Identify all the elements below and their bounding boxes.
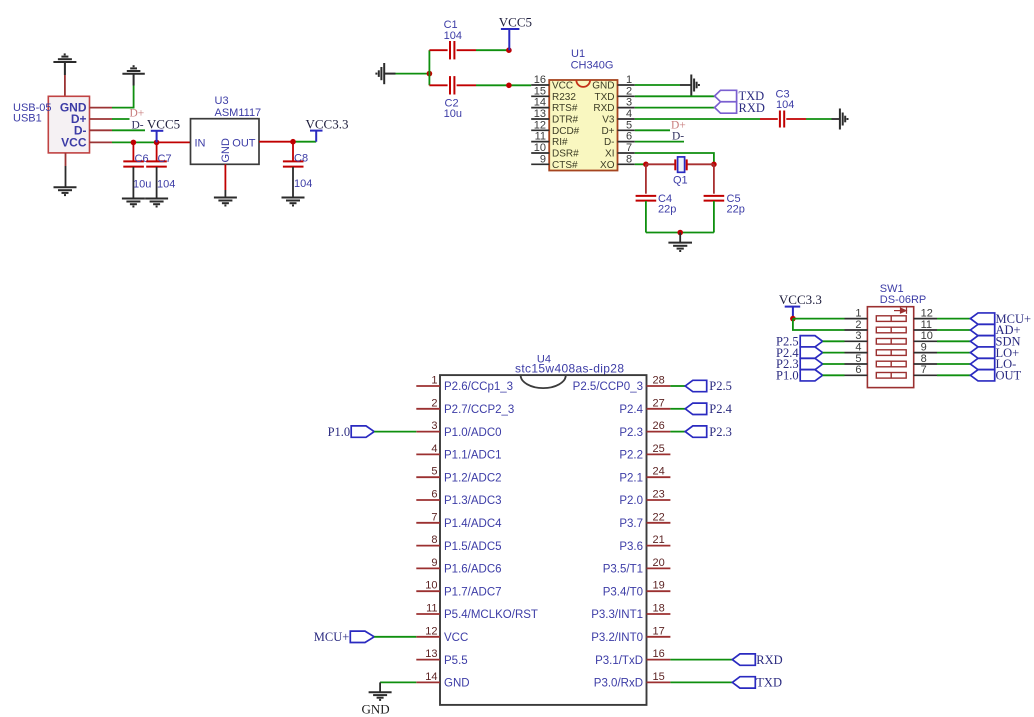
svg-text:P3.1/TxD: P3.1/TxD [595, 655, 643, 667]
svg-text:20: 20 [653, 557, 665, 569]
MCU U4 box [440, 375, 647, 705]
svg-text:11: 11 [535, 131, 546, 143]
port TXD (U4) [732, 677, 755, 688]
wire GND net [112, 86, 134, 108]
svg-text:GND: GND [362, 702, 390, 717]
svg-text:3: 3 [431, 420, 437, 432]
svg-text:V3: V3 [602, 115, 615, 126]
U1 left pin names [552, 81, 580, 171]
svg-text:26: 26 [653, 420, 665, 432]
ground under crystal [668, 243, 692, 251]
wire ground to C1/C2 net [396, 73, 430, 75]
ground at U1 pin1 (sideways) [691, 75, 699, 96]
svg-text:P2.2: P2.2 [619, 450, 643, 462]
ground under USB1 [54, 187, 77, 195]
svg-text:17: 17 [653, 625, 665, 637]
svg-text:RI#: RI# [552, 137, 568, 148]
svg-text:11: 11 [921, 319, 932, 331]
U1 right pin names [592, 81, 615, 171]
svg-text:D+: D+ [671, 119, 686, 131]
wire U1 pin4 V3 + capacitor C3 [635, 118, 760, 120]
svg-text:8: 8 [626, 153, 632, 165]
svg-text:18: 18 [653, 603, 665, 615]
USB1 pin stubs [90, 108, 113, 143]
wire vertical C1-C2 left [428, 50, 430, 85]
SW1 left pin numbers [855, 307, 861, 376]
svg-text:P2.4: P2.4 [709, 402, 732, 416]
switch SW1 box [867, 307, 913, 388]
junction node VCC3.3-SW1 [790, 316, 796, 322]
svg-text:CTS#: CTS# [552, 160, 578, 171]
port MCU+ [970, 313, 994, 324]
junction node xtal-gnd [677, 230, 683, 236]
wire SW1 pin1 [793, 318, 845, 320]
port TXD [715, 90, 737, 101]
svg-text:10: 10 [921, 330, 933, 342]
port LO- [970, 358, 994, 369]
SW1 arrow mark [894, 307, 907, 313]
svg-text:P2.7/CCP2_3: P2.7/CCP2_3 [444, 404, 514, 416]
U4 left pin names [444, 381, 538, 689]
ground GND-A1 above USB1 [53, 54, 76, 75]
svg-text:1: 1 [855, 307, 861, 319]
junction node pin16 [506, 83, 512, 89]
connector USB1 box [48, 96, 89, 153]
svg-text:14: 14 [534, 97, 546, 109]
svg-text:P2.3: P2.3 [619, 427, 643, 439]
SW1 right pin stubs [914, 319, 937, 376]
svg-text:VCC: VCC [552, 81, 573, 92]
U4 right pin stubs [647, 386, 671, 682]
U1 right pin stubs [618, 85, 635, 164]
IC U1 box [549, 80, 617, 171]
U4 left pin numbers [425, 375, 437, 683]
svg-text:1: 1 [431, 375, 437, 387]
wire U4 pin26 [670, 431, 685, 433]
ground under C8 [282, 198, 305, 206]
wire U4 pin16 RXD [670, 659, 732, 661]
wire SW1 pin5 [823, 374, 845, 376]
svg-text:OUT: OUT [996, 369, 1022, 383]
svg-text:VCC3.3: VCC3.3 [306, 117, 349, 132]
svg-text:12: 12 [921, 307, 933, 319]
wire U4 pin28 [670, 385, 685, 387]
port RXD [715, 102, 737, 113]
svg-text:RXD: RXD [739, 101, 765, 115]
port RXD (U4) [732, 654, 755, 665]
U3 GND pin wire [224, 164, 226, 190]
svg-text:P2.1: P2.1 [619, 472, 643, 484]
wire U1 pin1 GND [635, 84, 680, 86]
svg-text:Q1: Q1 [673, 175, 688, 187]
svg-text:P2.6/CCp1_3: P2.6/CCp1_3 [444, 381, 513, 393]
svg-text:104: 104 [776, 99, 794, 111]
svg-text:27: 27 [653, 397, 665, 409]
svg-text:25: 25 [653, 443, 665, 455]
svg-text:DTR#: DTR# [552, 115, 579, 126]
svg-text:5: 5 [431, 466, 437, 478]
wire MCU+ to pin12 [374, 636, 416, 638]
svg-text:VCC5: VCC5 [147, 116, 180, 131]
svg-text:5: 5 [626, 119, 632, 131]
wire U1 pin6 D- [635, 141, 684, 143]
svg-text:16: 16 [653, 648, 665, 660]
U4 notch [521, 375, 566, 388]
svg-text:P1.7/ADC7: P1.7/ADC7 [444, 586, 502, 598]
svg-text:P2.5/CCP0_3: P2.5/CCP0_3 [573, 381, 643, 393]
svg-text:DCD#: DCD# [552, 126, 580, 137]
svg-text:4: 4 [855, 341, 861, 353]
capacitor C4 [645, 164, 647, 193]
svg-text:10u: 10u [444, 108, 462, 120]
svg-text:16: 16 [534, 74, 546, 86]
svg-text:P2.3: P2.3 [709, 425, 732, 439]
ground left of C1/C2 (sideways) [376, 63, 395, 84]
USB1 pin names [60, 101, 87, 150]
svg-text:2: 2 [431, 397, 437, 409]
svg-text:9: 9 [431, 557, 437, 569]
svg-text:OUT: OUT [232, 137, 256, 149]
svg-text:10u: 10u [133, 179, 151, 191]
svg-text:21: 21 [653, 534, 665, 546]
svg-text:4: 4 [626, 108, 632, 120]
svg-text:3: 3 [855, 330, 861, 342]
wire USB1 GND pin to ground [64, 75, 66, 96]
junction node XO [643, 162, 649, 168]
svg-text:D-: D- [672, 131, 684, 143]
U1 left pin numbers [534, 74, 546, 165]
svg-text:P2.5: P2.5 [709, 379, 732, 393]
wire SW1 pin2 [823, 340, 845, 342]
junction node VCC5-a [131, 140, 137, 146]
svg-text:GND: GND [444, 678, 470, 690]
wire SW1 pin2 [793, 319, 845, 330]
svg-text:RTS#: RTS# [552, 103, 578, 114]
svg-text:P3.3/INT1: P3.3/INT1 [591, 609, 643, 621]
svg-text:IN: IN [195, 137, 206, 149]
port AD+ [970, 324, 994, 335]
svg-text:P1.0: P1.0 [328, 425, 351, 439]
svg-text:22p: 22p [658, 204, 676, 216]
ground at U4 pin14 [369, 692, 392, 700]
svg-text:R232: R232 [552, 92, 576, 103]
wire crystal bottom [646, 232, 714, 234]
svg-text:D-: D- [132, 119, 144, 131]
U4 right pin names [573, 381, 644, 689]
svg-text:TXD: TXD [756, 676, 782, 690]
svg-text:13: 13 [425, 648, 437, 660]
svg-text:RXD: RXD [756, 653, 782, 667]
wire GND pin14 [380, 681, 416, 683]
ground under C7 [145, 199, 168, 207]
svg-text:USB1: USB1 [13, 113, 42, 125]
port OUT [970, 370, 994, 381]
SW1 right pin numbers [921, 307, 933, 376]
wire U1 pin5 D+ [635, 129, 670, 131]
wire SW1 pin3 [823, 352, 845, 354]
svg-text:ASM1117: ASM1117 [215, 107, 262, 119]
wire USB1 shield pin down [65, 153, 67, 166]
svg-text:MCU+: MCU+ [314, 630, 350, 644]
port P1.0 (U4 pin3) [351, 426, 374, 437]
wire U4 pin15 TXD [670, 681, 732, 683]
svg-text:12: 12 [534, 119, 546, 131]
port MCU+ (U4 pin12) [350, 631, 374, 642]
svg-text:P3.0/RxD: P3.0/RxD [594, 678, 643, 690]
svg-text:8: 8 [921, 353, 927, 365]
junction node XI [711, 162, 717, 168]
port P2.3 (SW1) [800, 358, 822, 369]
junction node VCC5 top [506, 47, 512, 53]
svg-text:P3.6: P3.6 [619, 541, 643, 553]
svg-text:C6: C6 [135, 153, 149, 165]
svg-text:8: 8 [431, 534, 437, 546]
svg-text:VCC: VCC [444, 632, 468, 644]
junction node VCC3.3 [290, 139, 296, 145]
svg-text:11: 11 [426, 603, 437, 615]
svg-text:22: 22 [653, 511, 665, 523]
U1 notch [576, 80, 590, 87]
U1 right pin numbers [626, 74, 632, 165]
svg-text:P1.0: P1.0 [776, 369, 799, 383]
svg-text:13: 13 [534, 108, 546, 120]
svg-text:XO: XO [600, 160, 615, 171]
svg-text:DSR#: DSR# [552, 149, 579, 160]
svg-text:2: 2 [626, 85, 632, 97]
svg-text:10: 10 [534, 142, 546, 154]
capacitor C7 [156, 142, 158, 160]
port LO+ [970, 347, 994, 358]
ground GND-A2 [122, 66, 144, 85]
svg-text:10: 10 [425, 580, 437, 592]
capacitor C6 [132, 142, 134, 160]
svg-text:6: 6 [626, 131, 632, 143]
svg-text:CH340G: CH340G [571, 60, 614, 72]
svg-text:6: 6 [431, 489, 437, 501]
svg-text:7: 7 [921, 364, 927, 376]
svg-text:7: 7 [431, 511, 437, 523]
svg-text:P3.7: P3.7 [619, 518, 643, 530]
svg-text:14: 14 [425, 671, 437, 683]
svg-text:P1.6/ADC6: P1.6/ADC6 [444, 564, 502, 576]
port P2.4 (SW1) [800, 347, 822, 358]
svg-text:DS-06RP: DS-06RP [880, 294, 926, 306]
wire U1 pin7 XI [635, 153, 714, 164]
svg-text:U1: U1 [571, 48, 585, 60]
svg-text:12: 12 [425, 625, 437, 637]
svg-text:D+: D+ [130, 108, 145, 120]
svg-text:22p: 22p [727, 204, 745, 216]
svg-text:2: 2 [855, 319, 861, 331]
SW1 dip elements [876, 316, 906, 378]
capacitor C1 [429, 49, 447, 51]
svg-text:104: 104 [444, 30, 462, 42]
svg-text:P3.2/INT0: P3.2/INT0 [591, 632, 643, 644]
port P2.4 (U4) [685, 403, 707, 414]
svg-text:24: 24 [653, 466, 665, 478]
svg-text:9: 9 [540, 153, 546, 165]
svg-text:GND: GND [220, 138, 232, 163]
wire SW1 right wires [937, 319, 970, 376]
port P2.5 (SW1) [800, 336, 822, 347]
ground under C6 [122, 199, 145, 207]
svg-text:1: 1 [626, 74, 632, 86]
svg-text:C8: C8 [294, 153, 308, 165]
capacitor C5 [713, 164, 715, 193]
svg-text:TXD: TXD [595, 92, 615, 103]
svg-text:23: 23 [653, 489, 665, 501]
ground right of C3 (sideways) [840, 109, 848, 130]
svg-text:P1.2/ADC2: P1.2/ADC2 [444, 472, 502, 484]
wire D- [112, 129, 145, 131]
svg-text:P1.1/ADC1: P1.1/ADC1 [444, 450, 502, 462]
svg-text:RXD: RXD [593, 103, 614, 114]
svg-text:P1.4/ADC4: P1.4/ADC4 [444, 518, 502, 530]
svg-text:15: 15 [534, 85, 546, 97]
port SDN [970, 336, 994, 347]
crystal Q1 [646, 163, 675, 165]
svg-text:15: 15 [653, 671, 665, 683]
svg-text:28: 28 [653, 375, 665, 387]
svg-text:3: 3 [626, 97, 632, 109]
svg-text:104: 104 [157, 179, 175, 191]
svg-text:6: 6 [855, 364, 861, 376]
svg-text:7: 7 [626, 142, 632, 154]
wire U1 pin8 XO [635, 163, 646, 165]
svg-text:P1.3/ADC3: P1.3/ADC3 [444, 495, 502, 507]
U4 left pin stubs [416, 386, 440, 682]
capacitor C8 [292, 142, 294, 161]
wire U1 pin2 TXD [635, 95, 715, 97]
wire SW1 pin4 [823, 363, 845, 365]
svg-text:C7: C7 [158, 153, 172, 165]
port P2.5 (U4) [685, 380, 707, 391]
svg-text:U3: U3 [215, 95, 229, 107]
regulator U3 box [191, 119, 260, 165]
ground under U3 [214, 198, 237, 206]
port P2.3 (U4) [685, 426, 707, 437]
svg-text:9: 9 [921, 341, 927, 353]
svg-text:P2.4: P2.4 [619, 404, 643, 416]
svg-text:VCC5: VCC5 [499, 15, 532, 30]
wire D+ [112, 118, 130, 120]
wire VCC to U3 IN [112, 141, 157, 143]
junction node VCC5-b [154, 140, 160, 146]
capacitor C2 [429, 84, 447, 86]
svg-text:D-: D- [604, 137, 615, 148]
wire P1.0 to pin3 [374, 431, 416, 433]
wire U1 pin3 RXD [635, 107, 715, 109]
wire U4 pin27 [670, 408, 685, 410]
port P1.0 (SW1) [800, 370, 822, 381]
svg-text:4: 4 [431, 443, 437, 455]
U4 right pin numbers [653, 375, 665, 683]
svg-text:P5.5: P5.5 [444, 655, 468, 667]
wire U3 OUT [259, 141, 293, 143]
svg-text:P1.0/ADC0: P1.0/ADC0 [444, 427, 502, 439]
svg-text:P2.0: P2.0 [619, 495, 643, 507]
U1 left pin stubs [531, 85, 549, 164]
svg-text:XI: XI [605, 149, 614, 160]
svg-text:VCC: VCC [61, 135, 87, 149]
svg-text:P1.5/ADC5: P1.5/ADC5 [444, 541, 502, 553]
svg-text:19: 19 [653, 580, 665, 592]
svg-text:GND: GND [592, 81, 614, 92]
junction node gnd-C1C2 [427, 71, 433, 77]
svg-text:P5.4/MCLKO/RST: P5.4/MCLKO/RST [444, 609, 538, 621]
svg-text:104: 104 [294, 178, 312, 190]
svg-text:P3.4/T0: P3.4/T0 [603, 586, 643, 598]
svg-text:P3.5/T1: P3.5/T1 [603, 564, 643, 576]
svg-text:VCC3.3: VCC3.3 [779, 292, 822, 307]
svg-text:D+: D+ [601, 126, 614, 137]
svg-text:5: 5 [855, 353, 861, 365]
svg-text:stc15w408as-dip28: stc15w408as-dip28 [515, 362, 624, 376]
